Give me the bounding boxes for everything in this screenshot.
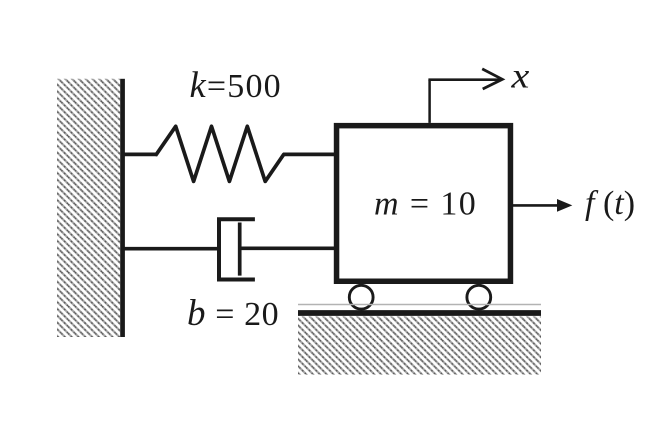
ground faint upper line bbox=[298, 304, 541, 306]
ground surface line bbox=[298, 310, 541, 316]
damper piston bbox=[238, 223, 242, 276]
x arrow vertical riser bbox=[428, 80, 431, 123]
svg-text:x: x bbox=[510, 56, 529, 96]
spring k bbox=[156, 126, 283, 181]
wall face line bbox=[120, 79, 125, 337]
ground hatch bbox=[298, 317, 541, 375]
svg-text:f (t): f (t) bbox=[585, 185, 635, 222]
spring rod from wall bbox=[125, 153, 158, 157]
x arrowhead (open) bbox=[482, 69, 502, 89]
f(t) arrowhead (filled) bbox=[557, 199, 572, 212]
damper rod from wall bbox=[125, 247, 222, 251]
wheel right bbox=[467, 285, 491, 309]
x arrow shaft bbox=[428, 78, 500, 81]
damper piston rod bbox=[240, 246, 336, 250]
damper cylinder bbox=[219, 219, 255, 279]
svg-text:b = 20: b = 20 bbox=[187, 293, 279, 334]
spring rod to mass bbox=[283, 153, 336, 157]
wheel left bbox=[349, 285, 373, 309]
mass m block bbox=[337, 126, 511, 282]
svg-text:m = 10: m = 10 bbox=[374, 186, 477, 223]
wall (hatched) bbox=[57, 79, 120, 337]
svg-text:k=500: k=500 bbox=[190, 64, 282, 105]
f(t) arrow shaft bbox=[513, 204, 559, 207]
